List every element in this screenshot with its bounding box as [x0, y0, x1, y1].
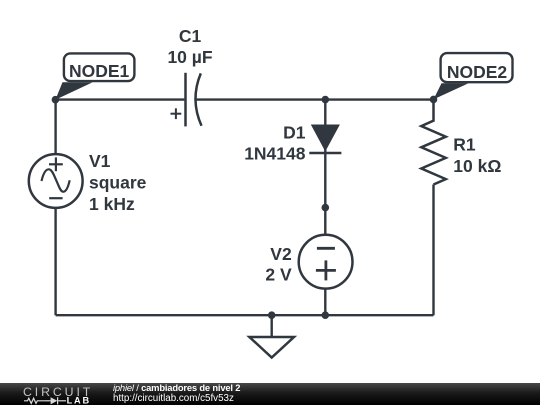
wire left rail upper: [54, 100, 56, 155]
wire V2 to bottom rail: [324, 288, 326, 315]
svg-text:10 kΩ: 10 kΩ: [453, 156, 501, 176]
svg-text:V2: V2: [270, 244, 292, 264]
node junction diode-V2: [322, 204, 330, 212]
wire top rail right: [196, 98, 434, 100]
resistor R1: [421, 99, 446, 184]
diode D1: [309, 125, 341, 154]
footer bar: [0, 383, 540, 405]
wire top rail left: [56, 98, 185, 100]
svg-text:2 V: 2 V: [265, 265, 292, 285]
svg-text:V1: V1: [89, 151, 111, 171]
capacitor C1: [171, 73, 202, 127]
wire left rail lower: [54, 208, 56, 316]
node junction diode-top: [322, 96, 330, 104]
ground: [249, 337, 294, 358]
node junction V2-bottom: [322, 311, 330, 319]
svg-text:R1: R1: [453, 135, 476, 155]
wire ground stub: [271, 315, 273, 337]
svg-text:C1: C1: [179, 26, 202, 46]
node junction NODE1: [52, 96, 60, 104]
node NODE1 flag: [55, 53, 134, 99]
voltage source V2: [299, 235, 353, 289]
svg-text:LAB: LAB: [67, 396, 91, 405]
svg-text:10 µF: 10 µF: [167, 47, 212, 67]
svg-text:D1: D1: [283, 123, 306, 143]
svg-text:NODE2: NODE2: [447, 62, 508, 82]
node junction ground: [268, 311, 276, 319]
wire bottom rail: [56, 314, 434, 316]
svg-text:square: square: [89, 173, 147, 193]
svg-text:1N4148: 1N4148: [244, 144, 306, 164]
wire diode branch: [324, 100, 326, 236]
node NODE2 flag: [434, 53, 513, 99]
footer title text: [113, 383, 240, 403]
svg-text:1 kHz: 1 kHz: [89, 194, 135, 214]
svg-text:NODE1: NODE1: [69, 61, 130, 81]
voltage source V1: [29, 154, 83, 208]
CircuitLab logo: [20, 384, 96, 405]
node junction NODE2: [430, 96, 438, 104]
wire right rail lower: [432, 185, 434, 316]
